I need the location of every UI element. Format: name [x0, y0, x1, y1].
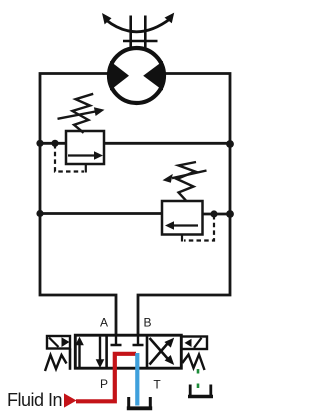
svg-text:P: P	[100, 377, 108, 391]
svg-text:T: T	[153, 377, 161, 391]
svg-text:A: A	[100, 316, 108, 330]
svg-text:Fluid In: Fluid In	[7, 390, 62, 410]
svg-text:B: B	[143, 315, 151, 329]
